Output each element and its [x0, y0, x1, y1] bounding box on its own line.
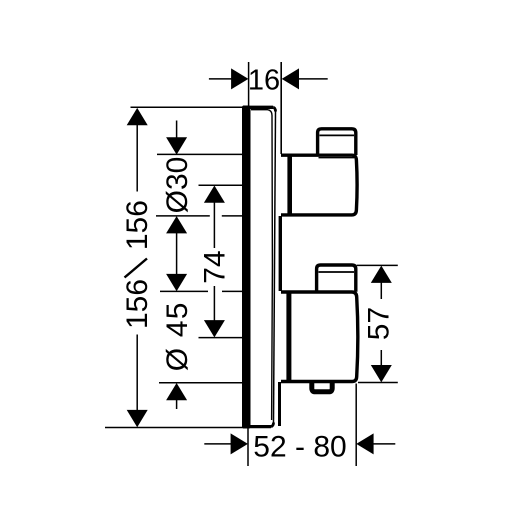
upper knob top thin line under cap — [319, 157, 355, 159]
plate bottom-right corner — [271, 423, 274, 427]
extension line: 52-80 left — [247, 429, 249, 467]
dim line 52-80 right tail — [373, 443, 395, 445]
arrow 52-80 right (left-pointing) — [356, 433, 373, 454]
extension line: upper knob bottom (O30), gap at 74 line — [156, 215, 243, 217]
arrow 57 bottom (down) — [371, 365, 392, 382]
dim line 52-80 left tail — [204, 443, 231, 445]
extension line: 52-80 right — [355, 384, 357, 467]
extension line: lower knob top (O45), gap at 74 line — [160, 290, 243, 292]
dim line O45 bottom shaft — [176, 400, 178, 410]
plate mounting face line between knobs — [279, 216, 282, 291]
dim line 16 right tail — [299, 78, 328, 80]
svg-text:52 - 80: 52 - 80 — [253, 431, 346, 464]
upper knob body left thick edge — [287, 155, 292, 215]
dim line 156 vertical with gaps for text — [136, 124, 138, 411]
trim plate front thick face — [242, 106, 251, 429]
dim line shaft between O30 and O45 — [176, 233, 178, 276]
extension tick: upper knob axis (74 dim) — [199, 184, 244, 186]
arrow 74 bottom (down) — [204, 320, 225, 337]
lower knob bottom tab — [312, 382, 332, 392]
lower knob bottom line — [281, 380, 353, 384]
svg-text:Ø 45: Ø 45 — [161, 301, 194, 371]
svg-text:156: 156 — [121, 200, 154, 250]
arrow 57 top (up) — [371, 266, 392, 283]
lower knob cap lever — [317, 265, 356, 292]
svg-text:156: 156 — [121, 279, 154, 329]
plate inner top line — [251, 110, 272, 420]
upper knob top line — [281, 153, 352, 156]
lower knob body left thick edge — [286, 292, 291, 382]
upper knob cap inner line — [320, 134, 355, 136]
dim line 74 vertical with gaps for text — [213, 202, 215, 322]
arrow O30 bottom (up, below line) — [166, 216, 187, 233]
plate mounting face line upper segment (16 right extension) — [280, 62, 282, 154]
svg-text:74: 74 — [199, 250, 232, 283]
arrow 16 right (left-pointing) — [282, 68, 299, 89]
plate top-right corner — [273, 107, 275, 111]
extension line: plate top (156 dim) — [131, 106, 244, 108]
lower knob top line — [281, 290, 352, 293]
extension line: 57 dim top — [357, 264, 398, 266]
lower knob body right edge — [352, 292, 358, 382]
upper knob bottom line — [281, 213, 352, 216]
arrow O45 top (down, above line) — [166, 274, 187, 291]
svg-text:Ø30: Ø30 — [161, 157, 194, 214]
upper knob cap lever — [318, 129, 356, 155]
plate top edge — [243, 106, 273, 109]
lower knob cap inner line — [319, 271, 355, 273]
dim line 57 vertical with gaps for text — [380, 282, 382, 367]
arrow 52-80 left (right-pointing) — [231, 433, 248, 454]
dim line O30 top shaft — [176, 121, 178, 139]
svg-text:16: 16 — [248, 65, 280, 97]
arrow 156 bottom (down) — [127, 410, 148, 427]
extension line: lower knob bottom (O45) — [159, 382, 243, 384]
extension line: upper knob top (O30) — [157, 153, 243, 155]
plate mounting face line below lower knob — [278, 382, 281, 426]
extension line: plate bottom (156 dim) — [105, 427, 250, 429]
arrow 74 top (up) — [204, 186, 225, 203]
plate bottom edge — [243, 425, 271, 428]
arrow 16 left (right-pointing) — [231, 68, 248, 89]
extension tick: lower knob axis (74 dim) — [199, 337, 244, 339]
arrow O30 top (down) — [166, 137, 187, 154]
label 156 / 156 slash — [125, 259, 148, 278]
svg-text:57: 57 — [363, 307, 396, 340]
arrow O45 bottom (up, below line) — [166, 383, 187, 400]
upper knob body right edge — [352, 155, 357, 215]
plate right outer contour — [274, 112, 276, 423]
extension line: 16 dim left — [248, 62, 250, 106]
dim line 16 left tail — [209, 78, 232, 80]
arrow 156 top (up) — [127, 108, 148, 125]
extension line: 57 dim bottom — [358, 382, 398, 384]
